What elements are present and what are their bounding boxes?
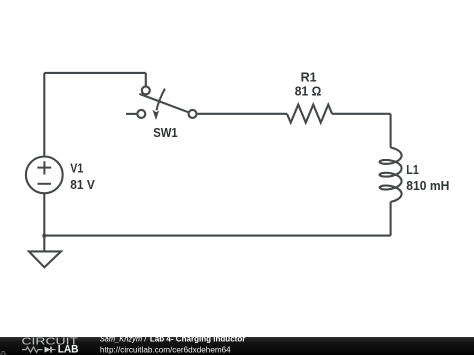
- wire bottom rail: [44, 235, 390, 237]
- wire top rail: [44, 72, 146, 74]
- wire V1 top to top rail: [43, 73, 45, 156]
- wire switch to resistor: [197, 113, 287, 115]
- junction dot: [42, 234, 46, 238]
- svg-text:Sam_Khzym: Sam_Khzym: [100, 334, 143, 343]
- V1 plus sign: [37, 161, 51, 174]
- switch arrow head: [152, 110, 159, 120]
- corner mini waveform: [0, 352, 7, 355]
- wire inductor bottom to rail: [390, 202, 392, 236]
- V1 minus sign: [38, 183, 52, 185]
- switch terminal circle left: [137, 110, 145, 118]
- logo resistor squiggle: [22, 347, 43, 352]
- switch SW1 blade: [139, 94, 188, 112]
- svg-text:LAB: LAB: [58, 344, 79, 355]
- wire V1 bottom to ground rail: [43, 194, 45, 236]
- wire right corner to inductor top: [390, 114, 392, 148]
- ground: [43, 236, 45, 252]
- svg-text:http://circuitlab.com/cer6dxde: http://circuitlab.com/cer6dxdehem64: [100, 345, 231, 354]
- switch actuation arrow: [157, 89, 165, 111]
- svg-text:/: /: [144, 334, 147, 343]
- svg-text:Lab 4- Charging Inductor: Lab 4- Charging Inductor: [150, 334, 246, 343]
- wire top rail to SW1 pin 1: [145, 73, 147, 86]
- switch terminal circle top: [142, 86, 150, 94]
- footer bar: [0, 337, 474, 355]
- logo diode: [45, 347, 51, 353]
- inductor L1 coil: [380, 148, 402, 202]
- switch stub wire left: [126, 113, 137, 115]
- voltage source V1 circle: [26, 157, 63, 194]
- switch terminal circle right: [189, 110, 197, 118]
- wire resistor to right corner: [332, 113, 391, 115]
- resistor R1 zigzag: [287, 105, 332, 123]
